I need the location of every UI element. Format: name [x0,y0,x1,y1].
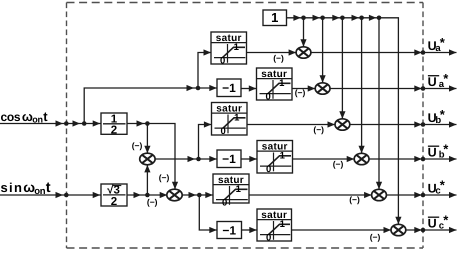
svg-text:0: 0 [221,126,226,137]
wire: bus drop 3 into multiplier 3 [339,18,345,119]
wire: node down to -1 row 6 [199,195,217,233]
svg-text:*: * [440,107,446,122]
wire: multiplier 5 output U*c [386,192,456,198]
svg-text:0: 0 [220,56,225,67]
wire: circle B output to satur row 5 [182,192,213,198]
svg-text:0: 0 [266,164,271,175]
svg-text:1: 1 [236,184,242,195]
svg-text:−1: −1 [222,223,236,237]
svg-text:U: U [428,217,437,231]
output label U*a bar [428,71,450,90]
wire: -1 to satur 6 [242,227,258,233]
wire: node up to satur 3 input [199,121,212,159]
saturation block 1 (phase a) [211,32,247,67]
output label U*b [428,107,446,126]
wire: multiplier 1 output U*a [311,49,457,55]
wire: satur4 to multiplier 4 [293,156,355,162]
wire: -1 to satur 2 [241,85,257,91]
wire: circle A output to -1 row 4 and satur row 3 [155,156,217,162]
svg-text:0: 0 [266,92,271,103]
multiplier 2 [315,83,330,94]
svg-text:0: 0 [266,233,271,244]
svg-text:(−): (−) [313,125,324,135]
wire: satur3 to multiplier 3 [247,121,335,127]
wire: multiplier 3 output U*b [350,121,457,127]
wire: satur2 to multiplier 2 [292,85,315,91]
svg-text:(−): (−) [349,194,360,204]
svg-text:(−): (−) [132,140,143,150]
svg-text:0: 0 [222,198,227,209]
svg-text:1: 1 [234,112,240,123]
wire: bus drop 2 into multiplier 2 [320,18,326,83]
gain block -1 (row 6) [217,222,242,239]
svg-text:(−): (−) [370,232,381,242]
wire: sqrt(3)/2 output to circle B, branch up to circle A [127,192,167,198]
svg-text:*: * [440,178,446,193]
multiplier 1 [296,47,311,58]
svg-text:U: U [428,75,437,89]
gain block 1/2 [101,113,127,136]
svg-text:2: 2 [111,124,117,136]
output label U*a [428,35,446,54]
wire: branch down into circle A (minus input) [144,124,150,154]
svg-text:(−): (−) [147,197,158,207]
summing junction B (-1/2 cos - sqrt3/2 sin) [167,189,182,201]
input label sin(w_on t) [1,179,51,197]
subsystem boundary (dashed) [67,3,424,249]
svg-text:cos: cos [1,110,21,124]
wire: cos branch up to -1 row and satur row 1 [84,85,217,124]
wire: sin input line [0,192,101,198]
svg-text:1: 1 [280,219,286,230]
wire: 1/2 output, branches to nodes above circles A and B [127,120,178,189]
svg-text:1: 1 [280,150,286,161]
saturation block 5 (phase c) [213,174,249,209]
wire: cos input line [0,120,101,126]
svg-text:(−): (−) [333,159,344,169]
wire: satur6 to multiplier 6 [292,227,392,233]
wire: constant bus feeding all six multipliers [287,15,402,225]
svg-text:−1: −1 [222,81,236,95]
output label U*c bar [428,213,450,232]
saturation block 4 (phase b inverted) [257,141,293,176]
wire: bus drop 1 into multiplier 1 [300,18,306,47]
wire: node up to satur 1 input [198,49,211,88]
multiplier 4 [354,153,369,164]
svg-text:1: 1 [271,10,278,25]
svg-text:(−): (−) [295,88,306,98]
output label U*c [428,178,446,197]
svg-text:2: 2 [111,196,117,208]
svg-text:*: * [443,213,449,228]
wire: branch up into circle A bottom (plus input) [144,165,150,195]
wire: -1 to satur 4 [241,156,257,162]
wire: multiplier 6 output U*c bar [406,227,457,233]
wire: bus drop 5 into multiplier 5 [376,18,382,190]
gain block -1 (row 2) [217,79,241,97]
saturation block 3 (phase b) [212,103,248,138]
wire: multiplier 2 output U*a bar [330,85,457,91]
output label U*b bar [428,142,450,161]
svg-text:1: 1 [279,78,285,89]
svg-text:*: * [443,71,449,86]
svg-text:(−): (−) [159,173,170,183]
svg-text:U: U [428,146,437,160]
wire: satur5 to multiplier 5 [249,192,372,198]
saturation block 2 (phase a inverted) [257,68,293,103]
gain block -1 (row 4) [217,150,241,168]
wire: satur1 to multiplier 1 [247,49,297,55]
saturation block 6 (phase c inverted) [257,209,292,244]
svg-text:−1: −1 [222,152,236,166]
svg-text:sin: sin [1,180,24,195]
multiplier 6 [391,224,406,235]
svg-text:(−): (−) [273,53,284,63]
gain block sqrt(3)/2 [101,184,127,208]
svg-text:1: 1 [234,42,240,53]
wire: multiplier 4 output U*b bar [369,156,457,162]
svg-text:t: t [46,180,51,196]
multiplier 5 [372,189,387,200]
wire: bus drop 4 into multiplier 4 [359,18,365,154]
svg-text:*: * [440,35,446,50]
summing junction A (-1/2 cos + sqrt3/2 sin) [140,153,155,165]
svg-text:t: t [43,109,48,124]
multiplier 3 [335,119,350,130]
constant block 1 [263,10,287,26]
svg-text:*: * [443,142,449,157]
input label cos(w_on t) [1,109,49,125]
